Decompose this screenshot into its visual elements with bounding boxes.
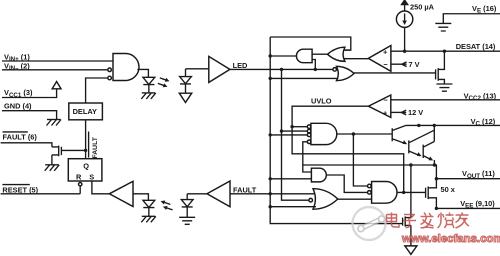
wire bus input to U12 xyxy=(270,178,311,180)
ground at FAULT FET (hatched) xyxy=(45,165,60,171)
wire U6 input from LED net xyxy=(312,60,315,70)
wire feedback input to U11 xyxy=(303,142,312,172)
svg-text:50 x: 50 x xyxy=(441,185,456,194)
svg-text:+: + xyxy=(383,108,388,117)
down arrow under D2 xyxy=(179,93,191,102)
photodiode D2 xyxy=(180,69,192,93)
comparator U10 (UVLO 12V) xyxy=(368,95,390,117)
gate U1 input AND (3-input NAND) xyxy=(108,54,139,81)
ground GND1 (hatched) xyxy=(47,120,62,126)
wire VIN- xyxy=(2,69,107,71)
svg-text:FAULT: FAULT xyxy=(92,136,99,158)
rail to VEE arrow xyxy=(410,165,412,218)
wire U8 output to DESAT discharge FET xyxy=(354,72,436,74)
wire RESET pin xyxy=(1,193,81,195)
svg-text:+: + xyxy=(383,48,388,57)
svg-text:Q: Q xyxy=(83,161,89,170)
node VC Q1 xyxy=(417,124,420,127)
pin label VIN+ (1) xyxy=(4,53,30,64)
node bus y56 xyxy=(269,54,272,57)
svg-text:12 V: 12 V xyxy=(408,108,423,117)
node U11 out tap xyxy=(352,132,355,135)
buffer U3 (detector to S) xyxy=(109,181,133,206)
node VC Q2Q3 xyxy=(433,124,436,127)
svg-text:−: − xyxy=(383,95,388,104)
comparator U9 (DESAT 7V) xyxy=(368,46,391,72)
svg-text:FAULT (6): FAULT (6) xyxy=(3,132,38,141)
transistor Q3 xyxy=(423,142,434,166)
wire top rail to OR1 xyxy=(270,37,351,50)
transistor Q5 (DESAT discharge FET) xyxy=(436,51,445,84)
wire DESAT pin xyxy=(391,50,500,52)
svg-text:S: S xyxy=(89,172,94,181)
wire U14 output to 50x FET gate xyxy=(397,191,426,193)
wire DELAY to NAND input xyxy=(86,78,108,103)
wire U8 input from bus xyxy=(270,77,338,79)
node bus y135 xyxy=(269,133,272,136)
LED1 xyxy=(143,77,155,93)
wire bus input to U11 xyxy=(270,134,307,136)
gate U14 (AND with 2 bubbles, output driver) xyxy=(368,182,397,204)
transistor Q6 (50x output FET) xyxy=(426,179,437,209)
wire UVLO input to U11 xyxy=(292,126,307,128)
svg-text:GND (4): GND (4) xyxy=(4,102,32,111)
photodiode D3 xyxy=(143,200,155,216)
gate U13 (3-input OR with bubble) xyxy=(309,189,338,210)
svg-text:VE (16): VE (16) xyxy=(472,4,497,15)
ground at LED1 (hatched) xyxy=(141,93,156,99)
ground at Q5 (3-bar) xyxy=(436,84,452,91)
wire LED2 anode xyxy=(187,193,207,195)
pin label VOUT (11) xyxy=(462,169,495,180)
svg-text:DESAT (14): DESAT (14) xyxy=(456,42,496,51)
svg-text:www.elecfans.com: www.elecfans.com xyxy=(401,233,500,245)
wire FAULT buffer input from bus xyxy=(230,193,316,195)
wire Q7 source to VEE arrow xyxy=(410,225,412,246)
block DELAY xyxy=(69,103,103,120)
wire VC pin xyxy=(406,124,500,126)
gate U12 (2-input AND) xyxy=(311,168,326,182)
wire U12 output to AND4 bubble2 xyxy=(326,175,367,192)
pin label VCC1 (3) xyxy=(4,88,33,99)
wire tap to AND4 bubble1 xyxy=(353,134,367,186)
node VEE xyxy=(435,207,438,210)
svg-text:7 V: 7 V xyxy=(409,60,420,69)
svg-text:RESET (5): RESET (5) xyxy=(2,185,38,194)
buffer U5 (LED driver) xyxy=(209,56,230,82)
node DESAT FET xyxy=(443,50,446,53)
wire GND xyxy=(2,111,57,120)
node FAULT gate junction xyxy=(84,149,87,152)
svg-text:250 µA: 250 µA xyxy=(410,2,435,11)
gate U11 (4-input AND with bubbles) xyxy=(307,123,336,144)
wire U13 output to AND4 xyxy=(338,198,372,200)
node bus y78 xyxy=(269,77,272,80)
wire U11 output to Q1 base xyxy=(337,133,392,135)
node emitter rail right xyxy=(433,163,436,166)
wire LED tap input to U11 xyxy=(282,130,308,132)
arrowhead 12V xyxy=(402,110,407,115)
svg-text:UVLO: UVLO xyxy=(311,97,332,106)
node bus y207 xyxy=(269,205,272,208)
wire bus input to U13 xyxy=(270,206,316,208)
light arrows LED2 to D3 xyxy=(161,201,173,211)
pin label VC (12) xyxy=(471,117,496,128)
wire 12V reference xyxy=(391,111,406,113)
wire DELAY to latch Q xyxy=(85,120,87,159)
wire FAULT pin xyxy=(1,143,52,147)
pin label FAULT (6) xyxy=(3,132,38,142)
pin label GND (4) xyxy=(4,102,32,111)
node LED-AND stub xyxy=(314,68,317,71)
gate U8 (OR with inverted LED input) xyxy=(333,66,354,80)
gate U6 (left-pointing AND) xyxy=(296,49,312,63)
node UVLO to 4AND xyxy=(290,125,293,128)
pin label VCC2 (13) xyxy=(464,91,497,102)
node emitter rail left xyxy=(409,163,412,166)
pin label VEE (9,10) xyxy=(460,199,495,210)
wire U6 input from OR1 xyxy=(312,53,327,55)
transistor Q1 xyxy=(392,125,407,144)
wire U6 output to bus xyxy=(270,55,296,57)
buffer U4 (FAULT to LED2) xyxy=(207,181,230,207)
pin label RESET (5) xyxy=(2,185,38,195)
ground at VE (3-bar) xyxy=(435,23,451,31)
wire VIN+ xyxy=(2,60,113,62)
watermark logo circle xyxy=(353,207,386,240)
LED2 xyxy=(181,194,193,218)
wire LED net xyxy=(230,68,333,70)
wire U7 input from rail xyxy=(344,49,351,51)
wire buffer input from photodiode D3 xyxy=(133,194,148,201)
wire VCC1 xyxy=(2,89,57,98)
down arrow VEE xyxy=(405,246,417,255)
light arrows LED1 to D2 xyxy=(158,78,170,88)
wire VEE pin xyxy=(436,207,500,209)
pin label VE (16) xyxy=(472,4,497,15)
wire D2 to LED buffer xyxy=(186,68,209,70)
ground at D3 (hatched) xyxy=(141,216,156,222)
node UVLO at 50x gate xyxy=(402,191,405,194)
latch U2 (R/S flip-flop) xyxy=(68,159,102,182)
wire R input xyxy=(79,186,81,194)
supply arrow VCC1 xyxy=(52,82,61,89)
current source I1 250uA xyxy=(396,0,412,51)
wire S input xyxy=(92,181,109,194)
pin label VIN- (2) xyxy=(4,61,30,72)
vertical LED tap wire xyxy=(282,69,309,200)
node LED tap to 4AND xyxy=(280,129,283,132)
node DESAT source xyxy=(403,50,406,53)
watermark chinese characters xyxy=(387,213,470,229)
feedback wire (emitter rail) xyxy=(303,165,437,179)
ground at LED2 (3-bar) xyxy=(179,217,195,224)
wire UVLO route to gates xyxy=(292,106,404,192)
net label FAULT (vertical) xyxy=(89,132,99,159)
svg-text:DELAY: DELAY xyxy=(73,107,97,116)
R input bubble xyxy=(79,183,82,186)
wire U7 input from DESAT comparator xyxy=(344,58,368,60)
wire VOUT pin xyxy=(436,178,500,180)
node LED-vertical tap xyxy=(280,68,283,71)
arrowhead 7V xyxy=(402,62,407,67)
vertical bus (fault net) xyxy=(270,37,403,224)
svg-text:−: − xyxy=(383,60,388,69)
node bus y179 xyxy=(269,177,272,180)
wire VE pin xyxy=(443,14,500,24)
transistor Q2 xyxy=(409,125,435,156)
svg-text:R: R xyxy=(76,172,82,181)
transistor Q4 (FAULT open-drain FET) xyxy=(52,146,86,165)
node VOUT xyxy=(435,177,438,180)
transistor Q7 (soft turn-off FET) xyxy=(403,216,411,226)
node bus-FAULT xyxy=(269,192,272,195)
wire 7V reference xyxy=(391,63,407,65)
wire NAND1 output to LED1 xyxy=(137,69,148,77)
gate U7 (left-pointing OR) xyxy=(328,47,345,61)
wire VCC2 pin xyxy=(391,99,500,101)
